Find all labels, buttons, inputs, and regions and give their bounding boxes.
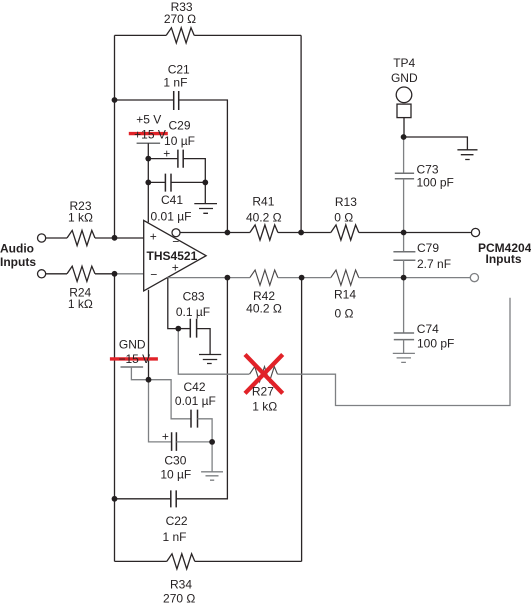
wire bottom feedback horizontal left bbox=[115, 560, 167, 562]
svg-text:C83: C83 bbox=[183, 290, 205, 304]
node output terminal 2 bbox=[470, 274, 478, 282]
wire C29 right elbow down bbox=[183, 159, 205, 183]
wire TP4 to ground bbox=[404, 137, 468, 150]
svg-text:−: − bbox=[150, 268, 157, 282]
wire C83 left bbox=[178, 328, 190, 330]
svg-text:GND: GND bbox=[119, 338, 146, 352]
capacitor C83 bbox=[190, 319, 196, 338]
svg-text:+: + bbox=[162, 430, 169, 444]
svg-text:1 kΩ: 1 kΩ bbox=[68, 297, 93, 311]
capacitor C41 bbox=[165, 174, 171, 192]
svg-text:Inputs: Inputs bbox=[0, 255, 36, 269]
svg-text:C30: C30 bbox=[164, 454, 186, 468]
wire out- to R41 bbox=[180, 232, 250, 234]
svg-text:40.2 Ω: 40.2 Ω bbox=[246, 302, 282, 316]
wire C41 left bbox=[148, 181, 165, 183]
svg-text:C73: C73 bbox=[417, 163, 439, 177]
wire bottom feedback horizontal right bbox=[195, 560, 302, 562]
svg-text:THS4521: THS4521 bbox=[147, 249, 198, 263]
node C41 right bbox=[202, 180, 208, 186]
red strikethrough +15V bbox=[129, 132, 168, 135]
capacitor C74 bbox=[394, 333, 414, 340]
ground at TP4 bbox=[457, 150, 477, 160]
wire Vs- node down to C30 bbox=[149, 380, 172, 442]
wire C30 right bbox=[176, 441, 212, 443]
wire C30 node to ground bbox=[211, 442, 213, 472]
wire TP4 stem bbox=[403, 118, 405, 137]
wire C74 to ground bbox=[403, 340, 405, 354]
svg-text:TP4: TP4 bbox=[393, 56, 415, 70]
wire C79 top bbox=[403, 233, 405, 252]
svg-text:+: + bbox=[163, 147, 170, 161]
svg-text:−: − bbox=[172, 235, 179, 249]
ground at C74 bbox=[393, 353, 415, 362]
wire C42 right elbow down bbox=[198, 419, 213, 442]
svg-text:C21: C21 bbox=[168, 63, 190, 77]
resistor R41 bbox=[250, 225, 278, 240]
svg-text:Audio: Audio bbox=[0, 241, 34, 255]
test point TP4 circle bbox=[396, 87, 412, 103]
wire R41 to R13 bbox=[278, 232, 331, 234]
node C41 left bbox=[145, 180, 151, 186]
wire R14 to output terminal 2 bbox=[359, 277, 471, 279]
svg-text:100 pF: 100 pF bbox=[417, 337, 454, 351]
svg-text:GND: GND bbox=[391, 71, 418, 85]
wire R24 to node B bbox=[95, 273, 115, 275]
wire node C83 down to R27 bbox=[178, 329, 249, 375]
wire C73 bottom bbox=[403, 179, 405, 233]
svg-text:+: + bbox=[150, 230, 157, 244]
capacitor C30 bbox=[172, 432, 177, 451]
node input terminal 2 bbox=[38, 270, 46, 278]
wire left vertical node B to bottom loop bbox=[114, 274, 116, 562]
svg-text:R14: R14 bbox=[334, 287, 356, 301]
svg-text:100 pF: 100 pF bbox=[417, 175, 454, 189]
wire left feedback vertical (node A to top loop) bbox=[114, 35, 116, 237]
svg-text:2.7 nF: 2.7 nF bbox=[417, 257, 451, 271]
test point TP4 square pad bbox=[397, 104, 411, 118]
node +in bbox=[112, 235, 118, 241]
wire out+ to R42 bbox=[167, 277, 250, 279]
wire input 1 bbox=[46, 237, 67, 239]
wire R23 to op-amp +in bbox=[95, 237, 144, 239]
wire right vertical from top loop to out- node bbox=[300, 35, 302, 232]
capacitor C21 bbox=[174, 91, 179, 110]
wire C21 left bbox=[115, 99, 174, 101]
resistor R42 bbox=[250, 270, 278, 285]
node input terminal 1 bbox=[38, 234, 46, 242]
op-amp inverting output bubble bbox=[172, 229, 180, 237]
capacitor C42 bbox=[191, 410, 198, 428]
wire C74 top bbox=[403, 278, 405, 333]
svg-text:270 Ω: 270 Ω bbox=[163, 591, 195, 603]
supply GND bar bbox=[121, 366, 144, 368]
node Vocm/C83 bbox=[175, 326, 181, 332]
svg-text:270 Ω: 270 Ω bbox=[164, 12, 196, 26]
wire C41 right bbox=[171, 181, 205, 183]
svg-text:C29: C29 bbox=[168, 118, 190, 132]
svg-text:0.01 µF: 0.01 µF bbox=[175, 394, 216, 408]
svg-text:+5 V: +5 V bbox=[136, 112, 161, 126]
resistor R23 bbox=[67, 230, 95, 245]
wire C22 left bbox=[115, 498, 171, 500]
svg-text:Inputs: Inputs bbox=[486, 252, 522, 266]
capacitor C73 bbox=[395, 173, 414, 179]
node C73/C79 bbox=[401, 230, 407, 236]
wire right vertical out+ node to bottom loop bbox=[301, 278, 303, 562]
svg-text:0.1 µF: 0.1 µF bbox=[176, 305, 210, 319]
resistor R34 bbox=[167, 554, 195, 569]
node C79/C74 bbox=[401, 275, 407, 281]
node C30/C42 bbox=[209, 439, 215, 445]
svg-text:0.01 µF: 0.01 µF bbox=[151, 210, 192, 224]
junction node dots bbox=[112, 97, 407, 502]
capacitor C79 bbox=[393, 252, 415, 261]
wire C83 right elbow to ground bbox=[197, 329, 211, 355]
svg-text:+15 V: +15 V bbox=[134, 128, 166, 142]
svg-text:1 kΩ: 1 kΩ bbox=[252, 399, 277, 413]
wire GND supply elbow bbox=[131, 367, 148, 380]
svg-text:10 µF: 10 µF bbox=[160, 467, 191, 481]
wire C29 left bbox=[148, 158, 178, 160]
wire R42 to R14 bbox=[278, 277, 331, 279]
wire top feedback horizontal right bbox=[194, 34, 301, 36]
ground at C83 bbox=[199, 355, 221, 364]
wire input 2 bbox=[46, 273, 67, 275]
svg-text:C41: C41 bbox=[161, 193, 183, 207]
resistor R14 bbox=[331, 270, 359, 285]
node C21/A bbox=[112, 97, 118, 103]
svg-text:0 Ω: 0 Ω bbox=[335, 306, 354, 320]
svg-text:R27: R27 bbox=[252, 385, 274, 399]
svg-text:10 µF: 10 µF bbox=[164, 134, 195, 148]
svg-text:1 kΩ: 1 kΩ bbox=[68, 210, 93, 224]
wire C73 top bbox=[403, 137, 405, 173]
node TP4 bbox=[401, 134, 407, 140]
op-amp U1 THS4521 triangle bbox=[144, 220, 206, 291]
resistor R24 bbox=[67, 266, 95, 281]
supply +5V bar bbox=[137, 142, 161, 144]
red X over R27 bbox=[245, 355, 283, 394]
capacitor C22 bbox=[171, 490, 176, 507]
wire C21 right to out- node bbox=[179, 100, 228, 233]
svg-text:1 nF: 1 nF bbox=[162, 530, 186, 544]
node -in bbox=[112, 271, 118, 277]
svg-text:0 Ω: 0 Ω bbox=[334, 211, 353, 225]
wire Vocm pin down from out+ edge bbox=[168, 278, 179, 329]
wire C22 right and vertical from out+ node bbox=[176, 278, 227, 499]
wire node B to op-amp -in bbox=[115, 273, 144, 275]
wire C79 bottom bbox=[403, 260, 405, 277]
ground at C30 bbox=[201, 472, 223, 480]
node C29 bbox=[145, 156, 151, 162]
svg-text:40.2 Ω: 40.2 Ω bbox=[246, 210, 282, 224]
resistor R27 bbox=[250, 367, 278, 382]
wire +5V stem to op-amp top pin bbox=[147, 143, 149, 222]
wire top feedback horizontal left bbox=[115, 34, 167, 36]
wire R13 to output terminal 1 bbox=[359, 232, 472, 234]
wire op-amp Vs- pin down bbox=[148, 290, 150, 380]
red strikethrough -15V bbox=[110, 357, 158, 360]
node out- fb bbox=[298, 230, 304, 236]
svg-text:C74: C74 bbox=[417, 322, 439, 336]
svg-text:R34: R34 bbox=[170, 577, 192, 591]
svg-text:C79: C79 bbox=[417, 241, 439, 255]
wire R27 right run to stub bbox=[278, 298, 511, 406]
ground for C41 bbox=[194, 182, 217, 213]
svg-text:R41: R41 bbox=[252, 195, 274, 209]
svg-text:R13: R13 bbox=[335, 195, 357, 209]
svg-text:1 nF: 1 nF bbox=[163, 76, 187, 90]
resistor R33 bbox=[166, 28, 194, 43]
svg-text:C42: C42 bbox=[183, 380, 205, 394]
node Vs-/GND bbox=[146, 377, 152, 383]
node output terminal 1 bbox=[471, 228, 479, 236]
resistor R13 bbox=[331, 225, 359, 240]
svg-text:C22: C22 bbox=[166, 514, 188, 528]
node out+ fb bbox=[299, 275, 305, 281]
node out+ C22 bbox=[225, 275, 231, 281]
node out- C21 bbox=[225, 230, 231, 236]
node C22/B bbox=[112, 496, 118, 502]
capacitor C29 bbox=[178, 150, 183, 168]
wire C42 loop bbox=[149, 380, 192, 419]
svg-text:−15 V: −15 V bbox=[118, 352, 150, 366]
